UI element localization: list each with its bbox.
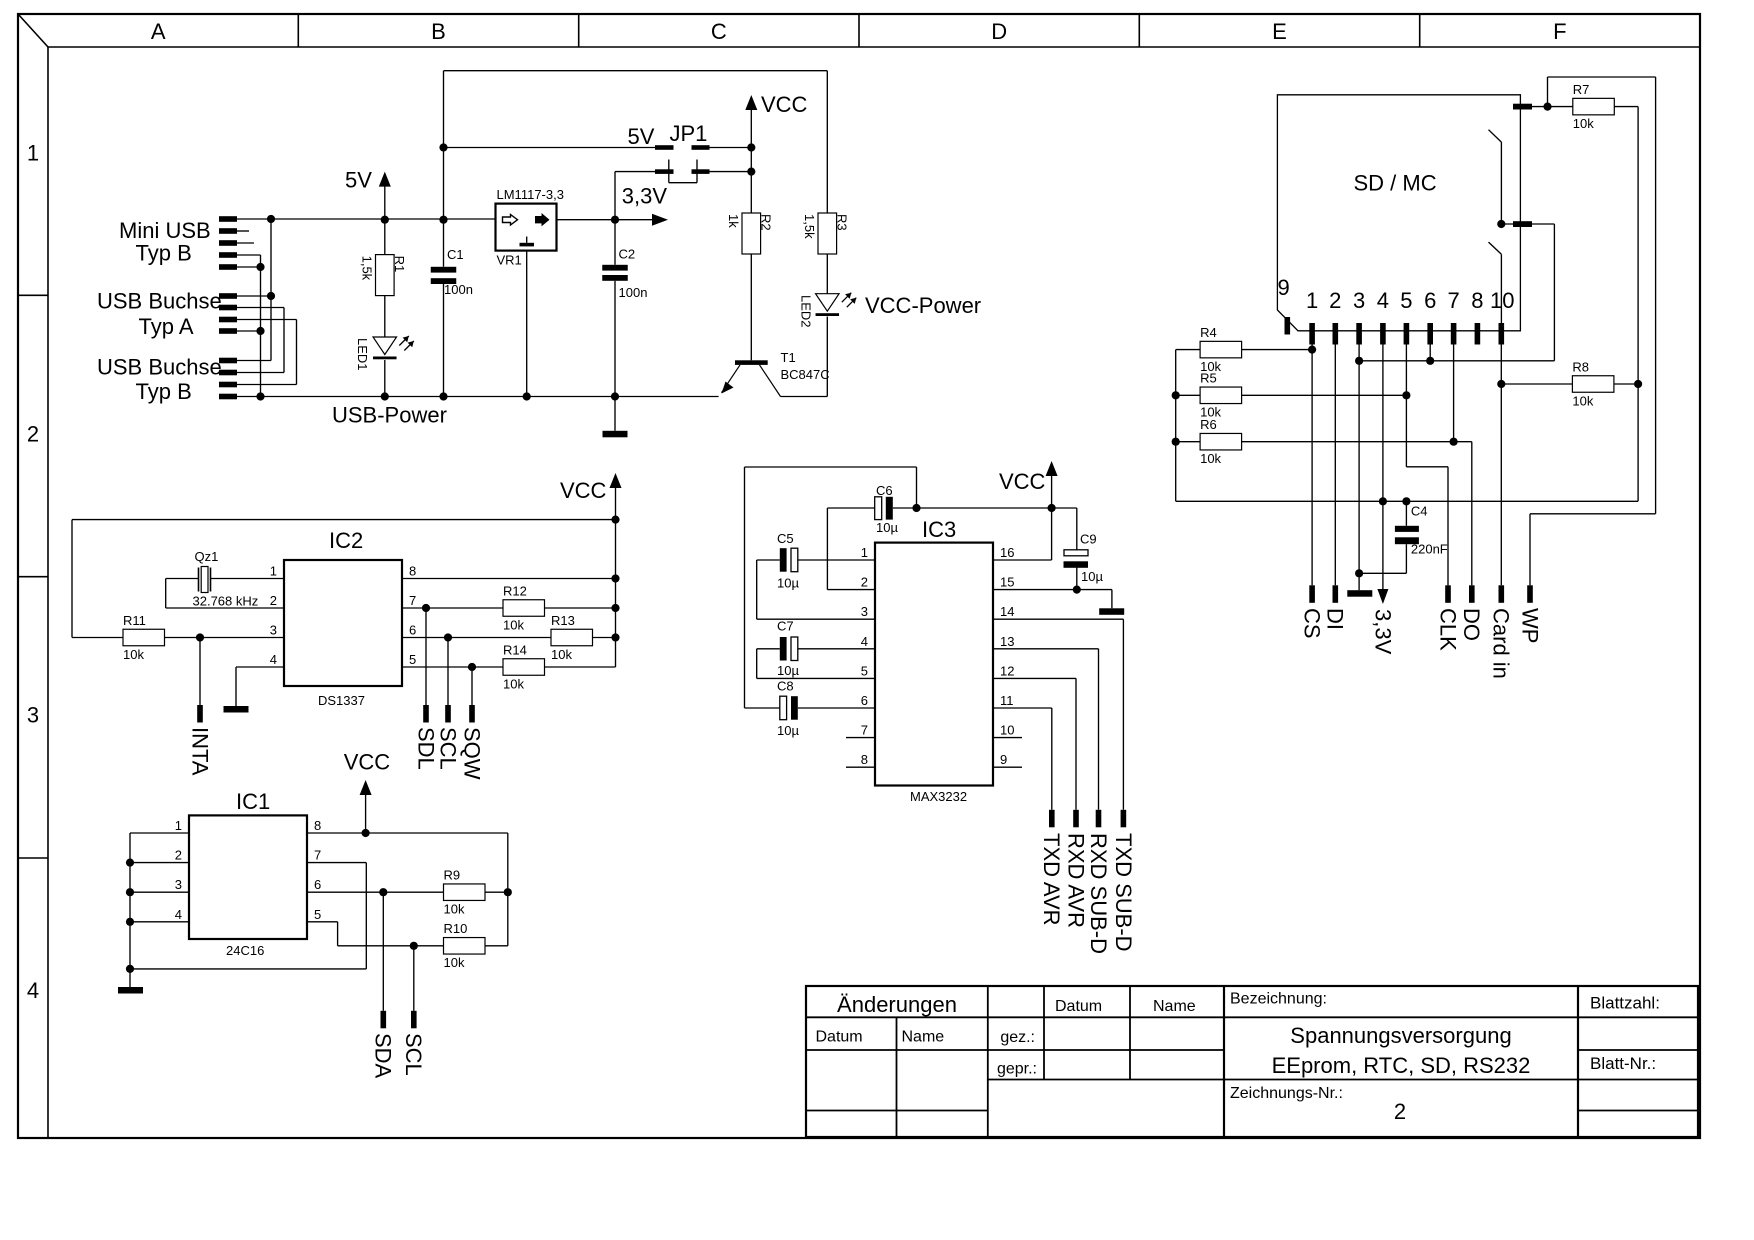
svg-text:6: 6 [314,877,321,892]
svg-text:D: D [991,19,1007,44]
svg-text:C7: C7 [777,619,794,634]
svg-text:Spannungsversorgung: Spannungsversorgung [1290,1023,1511,1048]
svg-text:LED2: LED2 [799,295,814,328]
svg-text:Name: Name [1153,998,1196,1015]
svg-text:10k: 10k [551,647,572,662]
svg-text:14: 14 [1000,604,1014,619]
svg-text:WP: WP [1517,608,1542,643]
svg-text:100n: 100n [619,285,648,300]
svg-text:10k: 10k [1572,393,1593,408]
svg-text:4: 4 [861,634,868,649]
svg-text:gez.:: gez.: [1000,1029,1035,1046]
svg-text:1,5k: 1,5k [359,256,374,281]
svg-text:R10: R10 [444,921,468,936]
svg-text:C5: C5 [777,531,794,546]
svg-text:R4: R4 [1200,325,1217,340]
svg-text:DI: DI [1323,608,1348,630]
svg-text:10k: 10k [1573,116,1594,131]
svg-text:Qz1: Qz1 [195,549,219,564]
svg-text:4: 4 [270,652,277,667]
svg-text:Name: Name [902,1029,945,1046]
svg-text:A: A [151,19,166,44]
svg-text:1: 1 [861,545,868,560]
svg-text:Card in: Card in [1489,608,1514,679]
svg-text:5V: 5V [628,124,655,149]
svg-text:10µ: 10µ [777,576,799,591]
svg-text:4: 4 [175,907,182,922]
svg-text:Typ B: Typ B [136,241,192,266]
svg-text:IC1: IC1 [236,789,270,814]
svg-text:R6: R6 [1200,417,1217,432]
svg-text:C1: C1 [447,247,464,262]
svg-text:4: 4 [1377,288,1389,313]
svg-text:gepr.:: gepr.: [997,1061,1037,1078]
svg-text:VCC-Power: VCC-Power [865,293,981,318]
svg-text:R2: R2 [758,214,773,231]
svg-text:3: 3 [27,703,39,728]
svg-text:Datum: Datum [816,1029,863,1046]
svg-text:5: 5 [409,652,416,667]
svg-text:R9: R9 [444,867,461,882]
svg-text:R7: R7 [1573,82,1590,97]
svg-text:9: 9 [1278,275,1290,300]
svg-text:100n: 100n [444,282,473,297]
svg-text:10µ: 10µ [1081,569,1103,584]
svg-text:7: 7 [861,723,868,738]
svg-text:3: 3 [1353,288,1365,313]
svg-text:USB-Power: USB-Power [332,403,447,428]
svg-text:2: 2 [270,593,277,608]
svg-text:T1: T1 [781,350,796,365]
svg-text:R12: R12 [503,583,527,598]
svg-text:3,3V: 3,3V [622,183,668,208]
svg-text:10µ: 10µ [876,520,898,535]
svg-text:4: 4 [27,978,39,1003]
svg-text:DS1337: DS1337 [318,693,365,708]
svg-text:R5: R5 [1200,371,1217,386]
svg-text:Mini USB: Mini USB [119,218,211,243]
svg-text:1: 1 [175,818,182,833]
svg-text:2: 2 [1329,288,1341,313]
svg-text:C2: C2 [619,247,636,262]
svg-text:F: F [1553,19,1566,44]
svg-text:R3: R3 [834,214,849,231]
svg-text:VR1: VR1 [497,253,522,268]
svg-text:Blatt-Nr.:: Blatt-Nr.: [1590,1054,1656,1073]
svg-text:3,3V: 3,3V [1370,609,1395,655]
svg-text:10µ: 10µ [777,663,799,678]
svg-text:SDA: SDA [371,1033,396,1079]
svg-text:BC847C: BC847C [781,367,830,382]
svg-text:LM1117-3,3: LM1117-3,3 [497,187,564,202]
svg-text:C8: C8 [777,679,794,694]
svg-text:Blattzahl:: Blattzahl: [1590,994,1660,1013]
svg-text:10k: 10k [444,901,465,916]
svg-text:6: 6 [1424,288,1436,313]
svg-text:8: 8 [314,818,321,833]
svg-text:USB Buchse: USB Buchse [97,355,222,380]
svg-text:SD / MC: SD / MC [1354,171,1437,196]
svg-text:7: 7 [409,593,416,608]
svg-text:10k: 10k [503,617,524,632]
svg-text:CS: CS [1300,608,1325,639]
svg-text:8: 8 [861,752,868,767]
svg-text:2: 2 [1394,1099,1406,1124]
svg-text:10k: 10k [123,647,144,662]
svg-text:1: 1 [1306,288,1318,313]
svg-text:TXD AVR: TXD AVR [1039,833,1064,926]
svg-text:Typ B: Typ B [136,379,192,404]
svg-text:CLK: CLK [1435,608,1460,651]
svg-text:LED1: LED1 [355,338,370,371]
svg-text:Bezeichnung:: Bezeichnung: [1230,991,1327,1008]
svg-text:USB Buchse: USB Buchse [97,289,222,314]
svg-text:SQW: SQW [459,727,484,780]
svg-text:3: 3 [861,604,868,619]
svg-text:13: 13 [1000,634,1014,649]
svg-text:10k: 10k [444,955,465,970]
svg-text:R13: R13 [551,613,575,628]
svg-text:1: 1 [270,564,277,579]
svg-text:3: 3 [270,623,277,638]
svg-text:3: 3 [175,877,182,892]
svg-text:11: 11 [1000,693,1014,708]
svg-text:12: 12 [1000,663,1014,678]
svg-text:VCC: VCC [560,478,607,503]
svg-text:15: 15 [1000,575,1014,590]
svg-text:6: 6 [861,693,868,708]
svg-text:10k: 10k [1200,451,1221,466]
svg-text:8: 8 [409,564,416,579]
svg-text:VCC: VCC [344,750,391,775]
svg-text:DO: DO [1459,608,1484,641]
svg-text:R8: R8 [1572,359,1589,374]
svg-text:R14: R14 [503,642,527,657]
svg-text:5: 5 [314,907,321,922]
svg-text:MAX3232: MAX3232 [910,789,967,804]
svg-text:Änderungen: Änderungen [837,992,957,1017]
svg-text:2: 2 [861,575,868,590]
svg-text:10: 10 [1490,288,1514,313]
svg-text:2: 2 [27,422,39,447]
svg-text:2: 2 [175,848,182,863]
svg-text:1,5k: 1,5k [802,214,817,239]
svg-text:VCC: VCC [999,469,1046,494]
svg-text:RXD AVR: RXD AVR [1063,833,1088,928]
svg-text:SDL: SDL [413,727,438,770]
svg-text:1k: 1k [726,214,741,228]
svg-text:B: B [431,19,446,44]
svg-text:R1: R1 [392,256,407,273]
svg-text:10k: 10k [503,676,524,691]
svg-text:E: E [1272,19,1287,44]
svg-text:1: 1 [27,141,39,166]
svg-text:SCL: SCL [435,727,460,770]
svg-text:5: 5 [1400,288,1412,313]
svg-text:10µ: 10µ [777,723,799,738]
svg-text:8: 8 [1471,288,1483,313]
svg-text:6: 6 [409,623,416,638]
svg-text:9: 9 [1000,752,1007,767]
svg-text:C: C [711,19,727,44]
svg-text:INTA: INTA [188,727,213,776]
svg-text:R11: R11 [123,613,146,628]
svg-text:TXD SUB-D: TXD SUB-D [1111,833,1136,952]
svg-text:10: 10 [1000,723,1014,738]
svg-text:220nF: 220nF [1411,542,1448,557]
svg-text:SCL: SCL [401,1033,426,1076]
svg-text:RXD SUB-D: RXD SUB-D [1086,833,1111,954]
svg-text:24C16: 24C16 [226,943,264,958]
svg-text:Zeichnungs-Nr.:: Zeichnungs-Nr.: [1230,1085,1343,1102]
svg-text:C6: C6 [876,483,893,498]
svg-text:EEprom, RTC, SD, RS232: EEprom, RTC, SD, RS232 [1272,1053,1531,1078]
svg-text:IC3: IC3 [922,517,956,542]
svg-text:IC2: IC2 [329,528,363,553]
svg-text:7: 7 [314,848,321,863]
svg-text:5: 5 [861,663,868,678]
svg-text:JP1: JP1 [670,121,708,146]
svg-text:Datum: Datum [1055,998,1102,1015]
svg-text:C9: C9 [1080,532,1097,547]
svg-text:C4: C4 [1411,504,1428,519]
svg-text:7: 7 [1447,288,1459,313]
svg-text:32.768 kHz: 32.768 kHz [193,594,259,609]
svg-text:VCC: VCC [761,92,808,117]
svg-text:Typ A: Typ A [139,314,194,339]
svg-text:5V: 5V [345,168,372,193]
svg-text:16: 16 [1000,545,1014,560]
